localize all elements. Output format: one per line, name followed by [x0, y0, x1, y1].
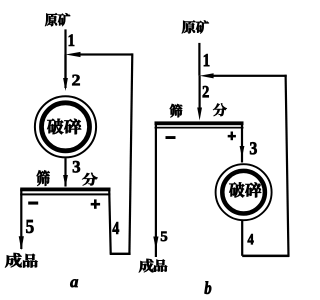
crusher label 破碎 (a) [47, 119, 63, 135]
undersize minus sign (b) [166, 136, 176, 139]
wire: recycle right vertical (a) [128, 53, 133, 255]
pin label 2 (b) [203, 86, 209, 97]
oversize plus sign (b) [228, 135, 236, 138]
wire: recycle bottom horizontal (b) [242, 255, 289, 258]
pin label 1 (a) [69, 35, 74, 46]
crusher inner ring (b) [222, 171, 265, 214]
wire: segment 5 undersize (a) [20, 189, 22, 249]
junction arrowhead into feed (b) [200, 73, 214, 78]
arrowhead product (a) [19, 236, 24, 250]
screen label 分 (a) [82, 173, 97, 186]
diagram label a [70, 279, 78, 287]
product label 成品 (a) [5, 253, 22, 267]
label raw-ore 原矿 (a) [45, 13, 57, 26]
arrowhead into crusher (b) [240, 146, 245, 158]
wire: segment 4 crusher down (b) [241, 221, 243, 256]
crusher label 破碎 (b) [229, 182, 244, 197]
wire: segment 3 crusher to screen (a) [64, 158, 66, 186]
crusher outer circle (a) [35, 96, 96, 157]
screen deck thick bar (b) [155, 121, 244, 125]
label raw-ore 原矿 (b) [182, 20, 195, 33]
product label 成品 (b) [139, 259, 154, 272]
pin label 3 (b) [250, 142, 257, 154]
pin label 3 (a) [73, 161, 80, 173]
crusher outer circle (b) [216, 164, 272, 220]
wire: recycle right vertical (b) [285, 75, 290, 257]
pin label 4 (b) [248, 234, 254, 244]
wire: segment 5 undersize (b) [155, 125, 157, 257]
undersize minus sign (a) [28, 202, 38, 205]
arrowhead into crusher (a) [63, 78, 68, 91]
oversize plus sign (a) [91, 203, 100, 206]
screen deck thick bar (a) [20, 188, 110, 192]
pin label 1 (b) [204, 54, 209, 66]
arrowhead product (b) [153, 237, 158, 250]
junction arrowhead into feed (a) [66, 52, 81, 57]
crusher inner ring (a) [42, 103, 90, 151]
arrowhead into screen (b) [197, 108, 202, 121]
screen label 筛 (b) [170, 104, 183, 117]
pin label 4 (a) [112, 222, 118, 234]
pin label 5 (b) [161, 232, 167, 241]
screen deck thin line (b) [155, 127, 244, 129]
arrowhead into screen (a) [63, 175, 68, 187]
pin label 5 (a) [26, 220, 33, 233]
wire: segment 2 into screen (b) [199, 76, 201, 108]
wire: segment 3 oversize to crusher (b) [241, 125, 243, 163]
wire: segment 4 oversize down (a) [108, 189, 112, 254]
wire: segment 2 into crusher (a) [64, 55, 66, 89]
wire: recycle top horizontal (a) [80, 53, 132, 55]
diagram label b [205, 281, 212, 294]
screen deck thin line (a) [20, 193, 110, 195]
pin label 2 (a) [72, 75, 79, 86]
wire: recycle bottom horizontal (a) [110, 253, 131, 255]
screen label 筛 (a) [37, 170, 50, 185]
wire: recycle top horizontal (b) [212, 75, 287, 77]
wire: feed line segment 1 (b) [198, 43, 200, 76]
screen label 分 (b) [213, 103, 227, 116]
wire: feed line segment 1 (a) [64, 29, 66, 80]
